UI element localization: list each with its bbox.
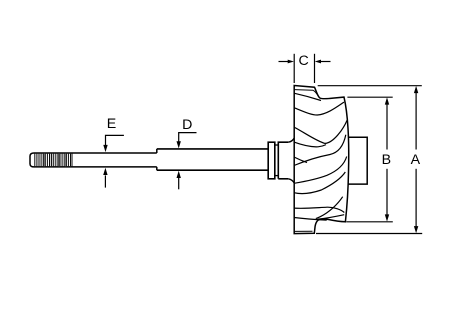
blade tip band parallel line bottom [294, 230, 312, 232]
dimension B extension line bottom [346, 221, 393, 223]
dimension B line lower segment with arrow [386, 169, 388, 216]
boss to back-disk fillet bottom [288, 179, 294, 183]
seal boss hub [278, 142, 288, 179]
dimension E leader bend [106, 135, 124, 145]
dimension A line upper segment with arrow [415, 92, 417, 150]
svg-text:C: C [298, 53, 308, 69]
large diameter shaft body [157, 149, 268, 170]
dimension D lower arrow [178, 178, 180, 190]
blade tip band inner line bottom [294, 218, 327, 221]
threaded stud end of shaft [30, 153, 72, 167]
blade contour mid sweep to nose [294, 135, 346, 166]
blade contour lower sweep 1 [294, 157, 347, 184]
turbine wheel nose block [349, 137, 368, 184]
dimension E lower arrow [104, 175, 106, 187]
dimension B line upper segment with arrow [386, 104, 388, 150]
dimension A extension line bottom [316, 233, 422, 235]
seal ring land 1 [268, 142, 275, 179]
svg-text:D: D [182, 117, 192, 133]
shaft step to larger diameter [156, 149, 158, 170]
blade tip band parallel line top [294, 90, 318, 97]
blade contour upper S1 [294, 102, 344, 115]
boss to back-disk fillet top [288, 138, 294, 142]
dimension B extension line top [347, 96, 392, 98]
dimension A line lower segment with arrow [415, 169, 417, 227]
dimension C extension line left [293, 54, 295, 83]
turbine wheel outline [294, 86, 349, 234]
svg-text:A: A [411, 152, 421, 168]
blade contour pair line mid [294, 157, 307, 163]
blade contour lower sweep 2 [294, 172, 345, 194]
blade contour upper S2 [294, 120, 347, 143]
dimension C extension line right [314, 54, 316, 83]
dimension D upper arrow [177, 141, 181, 148]
blade tip line along bottom band [318, 215, 345, 220]
blade contour pair line upper [294, 142, 326, 147]
piston ring groove [275, 145, 279, 176]
dimension A extension line top [318, 85, 422, 87]
dimension C left arrow [279, 61, 290, 63]
thin shaft journal section [72, 153, 157, 167]
thread crest hatch lines [44, 154, 66, 167]
dimension C right arrow [320, 61, 331, 63]
dimension D leader bend [179, 133, 197, 142]
dimension E upper arrow [103, 145, 107, 152]
svg-text:E: E [107, 116, 116, 132]
blade tip band inner line top [294, 93, 321, 100]
blade contour lower sweep 3 [294, 207, 344, 212]
blade trailing edge curve to bottom band [316, 197, 343, 219]
svg-text:B: B [382, 152, 391, 168]
